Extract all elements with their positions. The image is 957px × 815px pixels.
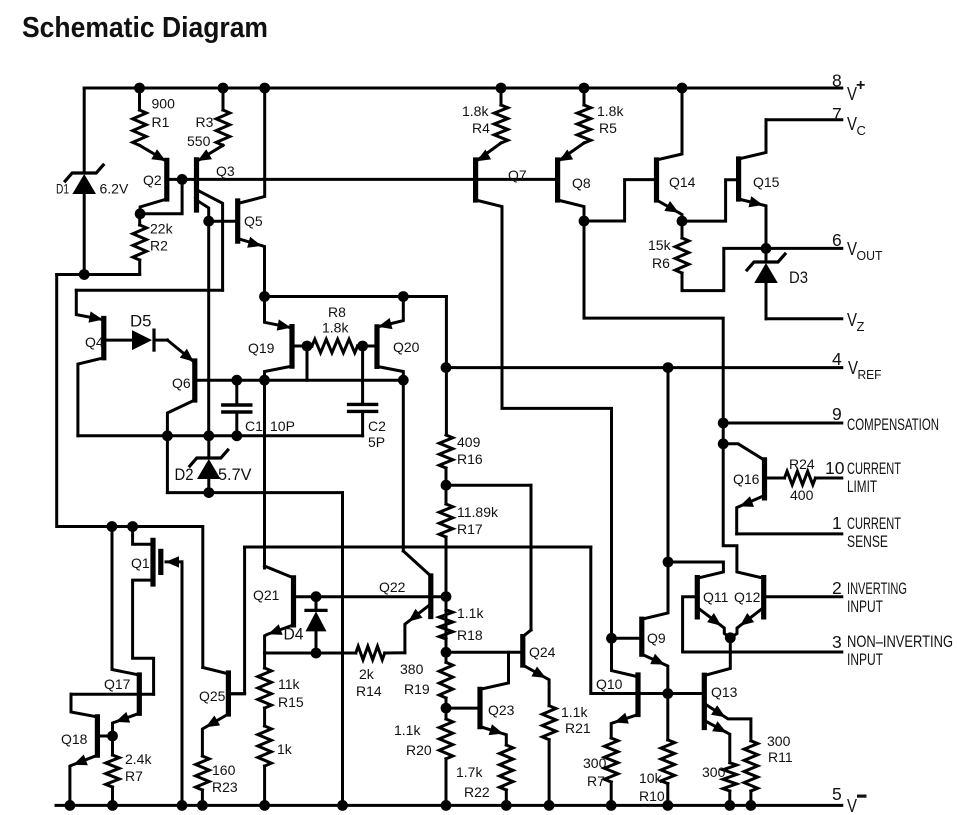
- svg-text:INPUT: INPUT: [847, 650, 883, 669]
- svg-text:Q19: Q19: [248, 340, 275, 356]
- svg-text:D3: D3: [789, 268, 808, 287]
- svg-text:Q23: Q23: [488, 702, 515, 718]
- svg-text:2.4k: 2.4k: [125, 751, 152, 767]
- svg-text:OUT: OUT: [857, 248, 883, 263]
- svg-text:22k: 22k: [150, 221, 174, 237]
- svg-text:9: 9: [832, 404, 842, 424]
- svg-text:R2: R2: [150, 238, 168, 254]
- svg-text:1.1k: 1.1k: [561, 704, 588, 720]
- svg-text:5.7V: 5.7V: [218, 465, 252, 484]
- svg-text:CURRENT: CURRENT: [847, 514, 901, 533]
- svg-text:V: V: [847, 239, 857, 259]
- svg-text:R4: R4: [472, 120, 490, 136]
- svg-text:1: 1: [832, 513, 842, 533]
- svg-text:Q12: Q12: [734, 589, 761, 605]
- svg-text:5P: 5P: [368, 434, 385, 450]
- svg-text:R5: R5: [599, 120, 617, 136]
- svg-text:Q17: Q17: [104, 676, 131, 692]
- svg-text:NON–INVERTING: NON–INVERTING: [847, 632, 953, 651]
- svg-text:1.1k: 1.1k: [457, 605, 484, 621]
- svg-text:R24: R24: [789, 456, 815, 472]
- svg-text:Q1: Q1: [131, 555, 150, 571]
- svg-text:INPUT: INPUT: [847, 597, 883, 616]
- svg-text:R7: R7: [587, 773, 605, 789]
- svg-text:Q21: Q21: [253, 587, 280, 603]
- svg-text:Q22: Q22: [379, 579, 406, 595]
- svg-text:D4: D4: [284, 625, 304, 644]
- svg-text:Z: Z: [857, 319, 865, 334]
- svg-text:Q20: Q20: [393, 339, 420, 355]
- svg-text:R16: R16: [457, 451, 483, 467]
- svg-text:1.1k: 1.1k: [394, 722, 421, 738]
- svg-text:R7: R7: [125, 768, 143, 784]
- svg-text:Q5: Q5: [244, 213, 263, 229]
- svg-text:Q3: Q3: [216, 163, 235, 179]
- svg-text:1.8k: 1.8k: [597, 103, 624, 119]
- svg-text:900: 900: [152, 96, 176, 112]
- svg-text:LIMIT: LIMIT: [847, 477, 877, 496]
- svg-text:4: 4: [832, 349, 842, 369]
- svg-text:D1: D1: [56, 181, 69, 197]
- svg-text:380: 380: [400, 661, 424, 677]
- svg-text:SENSE: SENSE: [847, 532, 888, 551]
- svg-text:2: 2: [832, 578, 842, 598]
- svg-text:Schematic Diagram: Schematic Diagram: [22, 12, 268, 44]
- svg-text:REF: REF: [858, 367, 882, 382]
- svg-text:300: 300: [767, 733, 791, 749]
- svg-text:6: 6: [832, 230, 842, 250]
- svg-text:Q8: Q8: [572, 175, 591, 191]
- svg-text:Q9: Q9: [647, 630, 666, 646]
- svg-text:R10: R10: [639, 788, 665, 804]
- svg-text:V: V: [847, 796, 857, 815]
- svg-text:D2: D2: [175, 465, 194, 484]
- svg-text:Q11: Q11: [703, 589, 729, 605]
- svg-text:8: 8: [832, 71, 842, 91]
- svg-text:R8: R8: [328, 304, 346, 320]
- svg-text:CURRENT: CURRENT: [847, 459, 901, 478]
- svg-text:11k: 11k: [278, 676, 301, 692]
- svg-text:R11: R11: [768, 749, 793, 765]
- svg-text:1.8k: 1.8k: [462, 103, 489, 119]
- svg-text:300: 300: [583, 755, 607, 771]
- svg-text:C2: C2: [368, 418, 386, 434]
- svg-text:6.2V: 6.2V: [100, 181, 129, 197]
- svg-text:Q24: Q24: [529, 644, 556, 660]
- svg-text:V: V: [847, 114, 857, 134]
- svg-text:400: 400: [790, 487, 814, 503]
- svg-text:INVERTING: INVERTING: [847, 579, 907, 598]
- svg-text:Q18: Q18: [61, 731, 88, 747]
- svg-text:5: 5: [832, 784, 842, 804]
- svg-text:Q2: Q2: [143, 172, 162, 188]
- svg-text:Q6: Q6: [172, 375, 191, 391]
- svg-text:Q14: Q14: [669, 174, 696, 190]
- svg-text:COMPENSATION: COMPENSATION: [847, 415, 939, 434]
- svg-text:7: 7: [832, 104, 842, 124]
- svg-text:C1: C1: [245, 418, 263, 434]
- svg-text:V: V: [847, 310, 857, 330]
- svg-text:550: 550: [187, 133, 211, 149]
- svg-text:Q7: Q7: [508, 167, 527, 183]
- svg-text:2k: 2k: [359, 666, 375, 682]
- svg-text:10P: 10P: [270, 418, 295, 434]
- svg-text:V: V: [848, 358, 858, 378]
- svg-text:R3: R3: [196, 114, 214, 130]
- svg-text:Q4: Q4: [85, 334, 104, 350]
- svg-text:Q15: Q15: [753, 174, 780, 190]
- svg-text:1k: 1k: [277, 741, 293, 757]
- svg-text:R17: R17: [457, 521, 483, 537]
- svg-text:300: 300: [702, 764, 726, 780]
- svg-text:R22: R22: [464, 784, 490, 800]
- svg-text:409: 409: [457, 434, 481, 450]
- svg-text:D5: D5: [130, 312, 152, 331]
- svg-text:R1: R1: [152, 114, 170, 130]
- svg-text:C: C: [857, 123, 866, 138]
- svg-text:11.89k: 11.89k: [457, 504, 499, 520]
- svg-text:Q16: Q16: [733, 471, 760, 487]
- svg-text:R23: R23: [212, 779, 238, 795]
- svg-text:R19: R19: [404, 681, 430, 697]
- svg-text:Q13: Q13: [711, 684, 738, 700]
- svg-text:R6: R6: [652, 255, 670, 271]
- svg-text:Q25: Q25: [199, 688, 226, 704]
- svg-text:15k: 15k: [648, 237, 672, 253]
- svg-text:R21: R21: [565, 720, 591, 736]
- svg-text:R15: R15: [278, 694, 304, 710]
- svg-text:1.7k: 1.7k: [456, 764, 483, 780]
- svg-text:R20: R20: [406, 742, 432, 758]
- svg-text:10k: 10k: [639, 770, 663, 786]
- svg-text:1.8k: 1.8k: [322, 320, 349, 336]
- svg-text:+: +: [856, 77, 865, 94]
- svg-text:10: 10: [825, 458, 845, 478]
- svg-text:R18: R18: [457, 627, 483, 643]
- svg-text:Q10: Q10: [596, 676, 623, 692]
- svg-text:R14: R14: [356, 683, 382, 699]
- svg-text:160: 160: [212, 762, 236, 778]
- svg-text:3: 3: [832, 632, 842, 652]
